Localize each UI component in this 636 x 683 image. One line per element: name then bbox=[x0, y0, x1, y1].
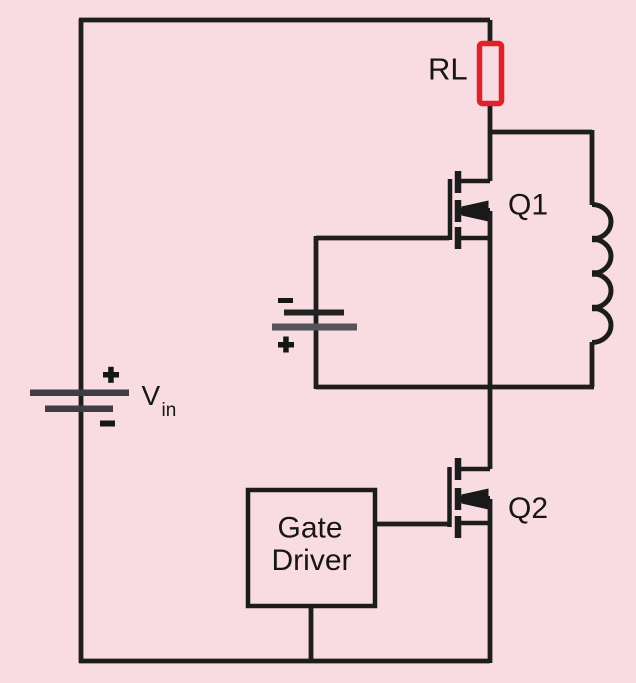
label Vin plus bbox=[103, 367, 119, 383]
svg-text:Driver: Driver bbox=[272, 544, 352, 577]
gate electrode bar Q2 bbox=[447, 467, 452, 527]
body arrow Q1 bbox=[462, 201, 489, 222]
battery B2 (floating gate supply) bbox=[272, 298, 357, 353]
wire top rail bbox=[79, 18, 490, 23]
wire Q2 source/body down to bottom rail bbox=[488, 499, 493, 663]
inductor L1 bbox=[592, 205, 611, 343]
svg-text:in: in bbox=[162, 400, 177, 421]
body arrow Q2 bbox=[462, 489, 489, 510]
channel segment source Q1 bbox=[455, 227, 462, 249]
wire gate feed Q1 from floating battery bbox=[316, 236, 449, 241]
battery B2 positive plate bbox=[272, 324, 357, 331]
wire Q1 body horizontal bbox=[458, 208, 490, 214]
wire bottom rail bbox=[79, 659, 490, 664]
channel segment drain Q1 bbox=[455, 171, 462, 193]
wire floating battery top lead bbox=[314, 236, 319, 311]
channel segment body Q2 bbox=[455, 488, 462, 510]
transistor Q1 (N-MOSFET) bbox=[450, 171, 490, 249]
wire Q1 drain horizontal bbox=[460, 179, 490, 184]
wire RL bottom lead to Q1 drain bbox=[488, 105, 493, 181]
wire Q2 source horizontal bbox=[460, 521, 490, 526]
wire Q2 body horizontal bbox=[458, 496, 490, 502]
wire Q1 source/body down through mid rail to Q2 drain bbox=[488, 211, 493, 469]
transistor Q2 (N-MOSFET) bbox=[450, 458, 491, 538]
wire Q2 drain horizontal bbox=[460, 467, 490, 472]
resistor RL (red body) bbox=[480, 44, 502, 104]
wire inductor top lead bbox=[590, 130, 595, 205]
wire Q1 source horizontal bbox=[460, 236, 490, 241]
svg-text:Q1: Q1 bbox=[508, 189, 548, 222]
svg-text:V: V bbox=[142, 380, 161, 411]
label B2 plus bbox=[278, 337, 294, 353]
wire floating battery bottom lead bbox=[314, 315, 319, 389]
channel segment source Q2 bbox=[455, 516, 462, 538]
wire inductor bottom lead bbox=[590, 342, 595, 387]
gate electrode bar Q1 bbox=[448, 179, 453, 240]
channel segment drain Q2 bbox=[455, 458, 462, 480]
svg-text:Gate: Gate bbox=[278, 512, 343, 545]
wire RL top lead bbox=[488, 20, 493, 42]
gate driver U1 box bbox=[248, 490, 375, 606]
wire mid rail (Q1 source node) bbox=[316, 385, 594, 390]
channel segment body Q1 bbox=[455, 200, 462, 222]
battery Vin positive plate bbox=[30, 390, 129, 397]
battery B2 negative plate bbox=[284, 310, 344, 316]
label B2 minus bbox=[278, 298, 293, 303]
battery Vin negative plate bbox=[45, 406, 113, 413]
svg-text:RL: RL bbox=[428, 52, 468, 87]
node junction RL-inductor branch bbox=[490, 130, 592, 135]
wire left rail bbox=[79, 19, 84, 663]
battery Vin bbox=[30, 367, 176, 427]
label Vin minus bbox=[100, 421, 115, 427]
wire gate driver bottom lead bbox=[309, 608, 314, 661]
wire gate driver output to Q2 gate bbox=[377, 522, 448, 527]
svg-text:Q2: Q2 bbox=[508, 492, 548, 525]
